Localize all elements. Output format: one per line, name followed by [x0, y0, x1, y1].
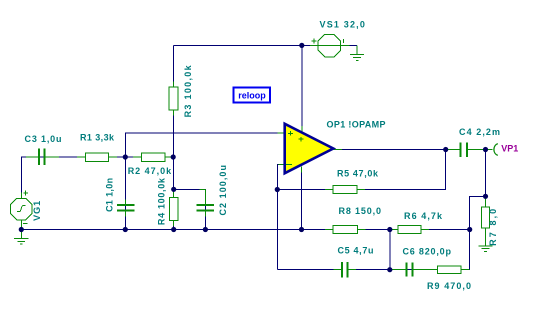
wire stub: op-amp +input — [278, 132, 286, 134]
svg-text:reloop: reloop — [238, 91, 266, 101]
wire stub: R4 bottom — [173, 220, 175, 226]
wire stub: R6 right — [421, 229, 429, 231]
ground at VG1 — [14, 230, 28, 245]
wire: non-inverting input branch — [125, 133, 284, 157]
resistor R7 — [481, 207, 489, 228]
wire stub: VS1 right — [341, 44, 350, 46]
svg-text:VS1 32,0: VS1 32,0 — [320, 19, 365, 29]
wire: rail R8 right to R6 — [358, 229, 398, 231]
wire: R5 feedback line y=189.5 — [277, 150, 445, 190]
wire stub: R8 right — [357, 229, 365, 231]
wire stub: op-amp output — [334, 149, 343, 151]
wire stub: R6 left — [390, 229, 398, 231]
wire stub: R8 left — [325, 229, 333, 231]
wire stub: VS1 left — [310, 44, 318, 46]
svg-text:VP1: VP1 — [501, 144, 518, 154]
wire: C5 right to dot — [348, 269, 390, 271]
wire stub: C3 right — [45, 156, 59, 158]
junction node R4/rail — [171, 227, 176, 232]
svg-text:R3 100,0k: R3 100,0k — [183, 64, 193, 117]
wire stub: C1 bottom — [124, 211, 126, 217]
wire stub: R3 bottom — [173, 110, 175, 116]
wire stub: op-amp V+ pin — [301, 126, 303, 133]
capacitor C4 plates — [460, 143, 462, 158]
junction node R1/R2/C1/+in — [123, 154, 128, 159]
junction node R2/R3/R4 — [171, 154, 176, 159]
wire stub: C3 left — [26, 156, 38, 158]
capacitor C1 plates — [117, 204, 135, 206]
wire: R4 branch vertical — [173, 157, 175, 230]
wire: ground rail y=229.5 — [21, 229, 333, 231]
op-amp input - marker — [286, 163, 292, 165]
resistor R9 — [438, 266, 462, 274]
wire: C4 right to VP1 — [468, 149, 493, 151]
resistor R1 — [86, 153, 109, 161]
wire stub: R4 top — [173, 192, 175, 198]
wire stub: op-amp -input — [279, 163, 286, 165]
svg-text:R2 47,0k: R2 47,0k — [128, 166, 172, 176]
generator VG1 symbol — [11, 191, 32, 224]
wire: op-amp output line y=149.5 — [335, 149, 460, 151]
wire: C6 R9 branch to upper node — [390, 196, 486, 269]
op-amp OP1 — [285, 124, 334, 173]
wire stub: C1 top — [124, 200, 126, 205]
wire stub: C4 left — [447, 149, 461, 151]
resistor R4 — [169, 197, 178, 220]
wire: V- supply drop x=301.5 — [301, 167, 303, 230]
junction node C5/C6 — [387, 267, 392, 272]
junction node R6/riser — [467, 227, 472, 232]
wire stub: R2 left — [133, 156, 142, 158]
wire: V+ supply drop x=301.8 — [301, 45, 303, 131]
junction node output/R5 — [443, 147, 448, 152]
wire: R3 branch vertical x=173.7 — [173, 45, 175, 157]
svg-text:R6 4,7k: R6 4,7k — [404, 211, 443, 221]
junction node -in/R5/C5 — [275, 187, 280, 192]
capacitor C5 plates — [341, 262, 343, 278]
svg-text:R4 100,0k: R4 100,0k — [157, 177, 167, 225]
resistor R5 — [333, 186, 357, 194]
wire: top rail from R3 top to VS1 — [174, 44, 311, 46]
wire stub: R7 bottom — [485, 228, 487, 246]
wire stub: C5 left — [334, 269, 342, 271]
resistor R3 — [169, 87, 178, 110]
svg-text:C1 1,0n: C1 1,0n — [105, 178, 115, 212]
ground at R7 — [478, 246, 492, 252]
wire: riser C5/R8 junction x=389.8 — [389, 230, 391, 270]
junction node C2/rail — [203, 227, 208, 232]
op-amp input + marker — [288, 131, 293, 136]
op-amp V+ pin marker — [299, 137, 304, 142]
probe VP1 symbol — [494, 144, 498, 156]
resistor R2 — [142, 153, 166, 161]
junction node V-/rail/R8 — [299, 227, 304, 232]
wire stub: C4 right — [468, 149, 486, 151]
wire stub: R9 right — [461, 269, 469, 271]
label box reloop — [234, 88, 271, 103]
svg-text:C3 1,0u: C3 1,0u — [25, 134, 62, 144]
wire stub: R5 left — [325, 189, 333, 191]
wire stub: VP1 lead — [486, 149, 493, 151]
junction node VG1/ground — [19, 227, 24, 232]
wire stub: R2 right — [165, 156, 173, 158]
wire stub: VS1 ground drop — [356, 45, 358, 54]
junction node R8/R6/riser — [387, 227, 392, 232]
wire stub: VG1 top terminal — [20, 193, 22, 199]
wire: C1 branch vertical — [124, 157, 126, 230]
resistor R8 — [333, 226, 357, 234]
wire: R6 right to riser — [421, 229, 470, 231]
wire: VG1 up and main input wire y=157 — [21, 157, 173, 196]
wire stub: R5 right — [357, 189, 365, 191]
wire stub: R7 top — [485, 199, 487, 208]
resistor R6 — [398, 226, 421, 234]
wire stub: R1 left — [77, 156, 86, 158]
svg-text:R1 3,3k: R1 3,3k — [80, 133, 115, 143]
wire stub: R3 top — [173, 82, 175, 88]
ground at VS1 — [350, 55, 364, 61]
svg-text:VG1: VG1 — [32, 201, 42, 221]
svg-text:R8 150,0: R8 150,0 — [339, 206, 382, 216]
junction node VS1/V+ — [299, 43, 304, 48]
capacitor C2 plates — [197, 204, 215, 206]
svg-text:C5 4,7u: C5 4,7u — [338, 246, 374, 256]
svg-text:R9 470,0: R9 470,0 — [427, 281, 471, 291]
svg-text:C6 820,0p: C6 820,0p — [403, 247, 452, 257]
junction node R4/C2 — [171, 187, 176, 192]
wire: VS1 right to ground corner — [349, 44, 357, 46]
wire: output node down to R7 x=485.5 — [485, 150, 487, 197]
wire: inverting input vertical x=277.3 — [277, 164, 284, 269]
svg-text:C4 2,2m: C4 2,2m — [459, 127, 500, 137]
svg-text:C2 100,0u: C2 100,0u — [218, 165, 228, 216]
voltage source VS1 symbol — [311, 34, 350, 56]
svg-text:OP1 !OPAMP: OP1 !OPAMP — [327, 120, 386, 130]
wire stub: C2 top — [200, 188, 206, 190]
junction node R7 top — [483, 194, 488, 199]
wire stub: C2 bottom — [204, 211, 206, 217]
wire stub: C6 right to R9 left — [413, 269, 438, 271]
wire: C2 top tee — [174, 189, 206, 229]
wire: C5 line y=269.7 — [277, 269, 341, 271]
wire stub: C5 right — [348, 269, 356, 271]
capacitor C6 plates — [406, 263, 408, 277]
wire stub: VG1 bottom terminal — [20, 220, 22, 230]
junction node C4/VP1/R7 — [483, 147, 488, 152]
junction node C1/rail — [123, 227, 128, 232]
svg-text:R5 47,0k: R5 47,0k — [337, 169, 379, 179]
wire stub: op-amp V- pin — [301, 167, 303, 173]
capacitor C3 plates — [38, 149, 40, 165]
wire stub: C6 left — [390, 269, 406, 271]
wire stub: R1 right — [109, 156, 118, 158]
